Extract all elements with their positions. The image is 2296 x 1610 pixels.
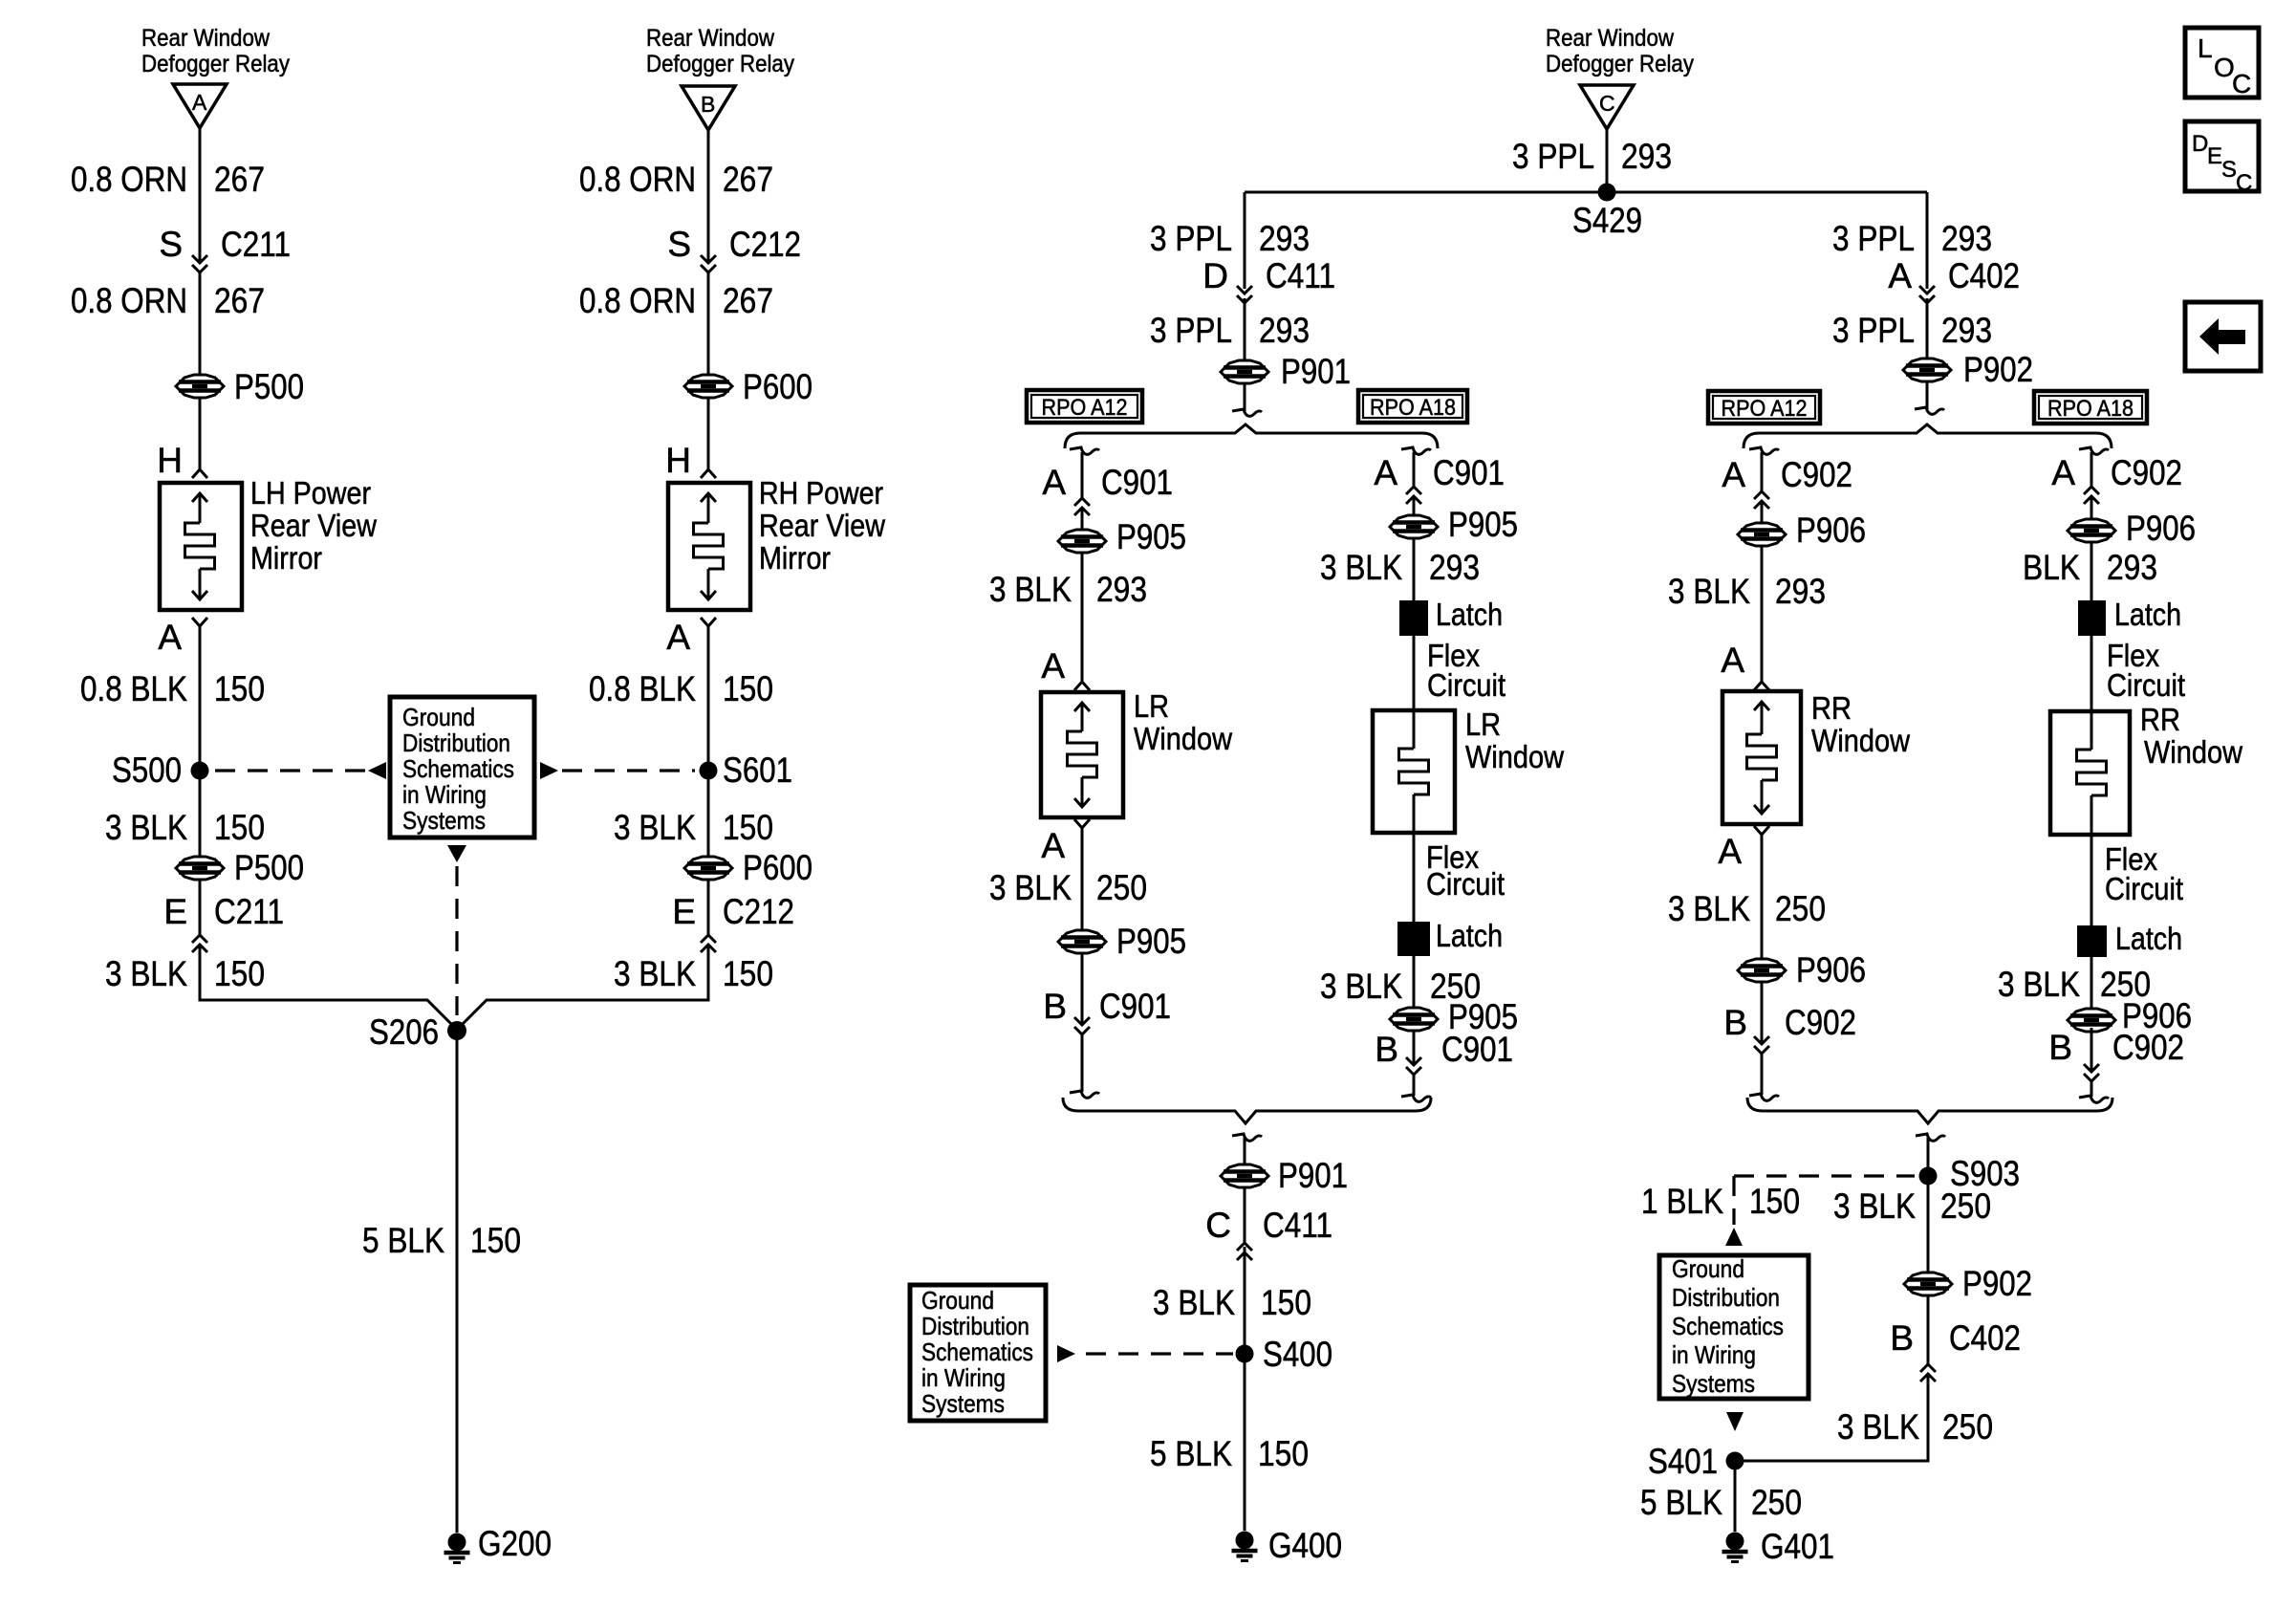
svg-text:H: H bbox=[157, 441, 183, 480]
svg-text:Ground: Ground bbox=[402, 703, 475, 731]
wire from C902 to P906 bbox=[2090, 496, 2093, 519]
value label 3 BLK 250 bbox=[1837, 1407, 1993, 1447]
back-arrow navigation icon bbox=[2185, 302, 2261, 371]
label Flex Circuit (lower) bbox=[2105, 841, 2183, 906]
splice S206 bbox=[369, 1012, 466, 1052]
svg-text:C: C bbox=[1205, 1206, 1231, 1245]
option callout RPO A12 (right) bbox=[1708, 391, 1820, 424]
svg-text:P901: P901 bbox=[1278, 1156, 1348, 1195]
svg-text:A: A bbox=[1721, 641, 1744, 680]
wire from C902 to harness brace bbox=[2079, 1081, 2109, 1102]
svg-text:C901: C901 bbox=[1101, 463, 1173, 502]
latch terminal (A18 RR lower) bbox=[2077, 921, 2182, 957]
svg-text:L: L bbox=[2198, 33, 2213, 63]
svg-text:C902: C902 bbox=[2111, 453, 2182, 492]
svg-text:C902: C902 bbox=[1781, 455, 1852, 494]
svg-text:Defogger Relay: Defogger Relay bbox=[1546, 51, 1694, 77]
svg-text:250: 250 bbox=[1096, 868, 1147, 907]
svg-text:150: 150 bbox=[723, 669, 773, 708]
wire 3 PPL 293 from C411 to P901 bbox=[1244, 298, 1246, 360]
ground G400 bbox=[1232, 1526, 1343, 1565]
dashed reference from S500 to ground note box bbox=[215, 762, 386, 779]
svg-text:P906: P906 bbox=[1796, 950, 1866, 990]
svg-text:3 BLK: 3 BLK bbox=[105, 954, 187, 993]
svg-text:Rear View: Rear View bbox=[250, 508, 377, 543]
svg-text:P600: P600 bbox=[743, 848, 812, 887]
grommet P901 bbox=[1221, 352, 1351, 391]
value label 3 BLK 250 bbox=[989, 868, 1147, 907]
value label 0.8 ORN 267 bbox=[579, 160, 773, 199]
connector C402 pin A bbox=[1888, 256, 2020, 303]
splice S429 bbox=[1572, 184, 1642, 241]
svg-text:S: S bbox=[159, 225, 183, 264]
value label 3 BLK 150 bbox=[1153, 1283, 1311, 1322]
harness option brace (left, lower) bbox=[1063, 1098, 1431, 1123]
dashed reference arrow from ground note box to S401 bbox=[1726, 1412, 1744, 1431]
svg-text:250: 250 bbox=[1940, 1186, 1991, 1226]
grommet P906 (A12 RR lower) bbox=[1738, 950, 1866, 990]
note box: Ground Distribution Schematics in Wiring Systems (middle) bbox=[910, 1285, 1046, 1421]
svg-text:Latch: Latch bbox=[1436, 597, 1503, 632]
svg-text:3 BLK: 3 BLK bbox=[1320, 548, 1402, 587]
wire from C902 to harness brace bbox=[1749, 1054, 1779, 1100]
svg-text:C211: C211 bbox=[214, 892, 284, 931]
svg-text:0.8 BLK: 0.8 BLK bbox=[589, 669, 696, 708]
svg-text:5 BLK: 5 BLK bbox=[1150, 1434, 1232, 1473]
pin A of RR window (bottom) bbox=[1718, 826, 1769, 871]
svg-text:150: 150 bbox=[723, 808, 773, 847]
svg-text:C: C bbox=[2232, 69, 2251, 98]
svg-text:0.8 ORN: 0.8 ORN bbox=[71, 281, 187, 320]
svg-text:3 BLK: 3 BLK bbox=[614, 954, 696, 993]
svg-text:Window: Window bbox=[1134, 721, 1232, 756]
svg-text:D: D bbox=[1202, 256, 1228, 295]
value label 3 BLK 250 bbox=[1320, 967, 1481, 1006]
svg-text:BLK: BLK bbox=[2023, 548, 2080, 587]
connector C902 pin B bbox=[1723, 982, 1856, 1054]
svg-text:G401: G401 bbox=[1761, 1527, 1834, 1566]
RH Power Rear View Mirror defogger element U2 bbox=[668, 483, 750, 610]
wire 0.8 ORN 267 from triangle A to C211 bbox=[199, 128, 202, 263]
svg-text:Defogger Relay: Defogger Relay bbox=[141, 51, 290, 77]
value label 3 BLK 293 bbox=[989, 570, 1147, 609]
svg-text:3 BLK: 3 BLK bbox=[1153, 1283, 1235, 1322]
wire 3 BLK 250 from latch to P906 bbox=[2090, 957, 2093, 1009]
svg-text:A: A bbox=[1041, 646, 1065, 685]
pin H of LH mirror bbox=[157, 441, 207, 480]
option callout RPO A18 (right) bbox=[2034, 391, 2147, 424]
grommet P600 bbox=[684, 367, 812, 406]
option callout RPO A18 (left) bbox=[1358, 390, 1467, 423]
svg-text:293: 293 bbox=[1775, 572, 1826, 611]
svg-text:G200: G200 bbox=[478, 1524, 552, 1563]
wire stub below P902 with harness break bbox=[1915, 381, 1944, 414]
wire 0.8 ORN 267 from C212 to P600 bbox=[707, 272, 710, 375]
svg-text:Latch: Latch bbox=[2114, 597, 2181, 632]
harness option brace (right) bbox=[1744, 424, 2112, 448]
label Flex Circuit (lower) bbox=[1426, 839, 1505, 902]
value label 3 PPL 293 bbox=[1150, 311, 1310, 350]
svg-text:Defogger Relay: Defogger Relay bbox=[646, 51, 794, 77]
svg-text:P906: P906 bbox=[2126, 509, 2196, 548]
wire 3 BLK 250 from RR window to P906 bbox=[1761, 835, 1764, 959]
grommet P902 bbox=[1903, 350, 2033, 389]
splice S401 bbox=[1648, 1442, 1744, 1481]
svg-text:A: A bbox=[1722, 455, 1745, 494]
svg-text:E: E bbox=[163, 892, 187, 931]
wire 5 BLK 150 from S400 to G400 bbox=[1244, 1354, 1246, 1531]
svg-text:H: H bbox=[665, 441, 691, 480]
wire to LH mirror pin H bbox=[199, 398, 202, 469]
value label 0.8 ORN 267 bbox=[579, 281, 773, 320]
svg-text:Mirror: Mirror bbox=[759, 540, 831, 576]
svg-text:293: 293 bbox=[1941, 219, 1992, 258]
svg-text:RPO A12: RPO A12 bbox=[1722, 396, 1808, 422]
connector C902 pin B (A18) bbox=[2048, 1028, 2184, 1081]
svg-text:C902: C902 bbox=[2112, 1028, 2184, 1067]
LH Power Rear View Mirror defogger element U1 bbox=[160, 483, 242, 610]
svg-text:B: B bbox=[2048, 1028, 2072, 1067]
RR Window defogger element (RPO A18) bbox=[2050, 711, 2130, 835]
value label 3 PPL 293 bbox=[1150, 219, 1310, 258]
svg-text:250: 250 bbox=[1775, 889, 1826, 928]
svg-text:3 PPL: 3 PPL bbox=[1150, 311, 1232, 350]
svg-text:267: 267 bbox=[214, 160, 265, 199]
svg-text:3 BLK: 3 BLK bbox=[989, 570, 1072, 609]
svg-text:in Wiring: in Wiring bbox=[402, 780, 487, 809]
label RR Window (RPO A18) bbox=[2140, 702, 2242, 770]
svg-text:Distribution: Distribution bbox=[921, 1312, 1029, 1340]
svg-text:293: 293 bbox=[1259, 311, 1310, 350]
wire 3 BLK 250 from latch to P905 bbox=[1413, 956, 1416, 1008]
svg-text:LR: LR bbox=[1134, 688, 1169, 724]
svg-text:Distribution: Distribution bbox=[402, 729, 510, 757]
svg-text:3 PPL: 3 PPL bbox=[1150, 219, 1232, 258]
svg-text:Circuit: Circuit bbox=[1427, 667, 1505, 703]
svg-text:S: S bbox=[667, 225, 691, 264]
svg-text:Latch: Latch bbox=[2115, 921, 2182, 956]
power feed label (Rear Window Defogger Relay, LH) bbox=[141, 25, 290, 77]
svg-text:S601: S601 bbox=[723, 751, 792, 790]
grommet P600 (lower) bbox=[684, 848, 812, 887]
svg-text:P902: P902 bbox=[1963, 350, 2033, 389]
value label 5 BLK 150 bbox=[362, 1221, 521, 1260]
grommet P905 (A18 LR lower) bbox=[1390, 997, 1518, 1036]
svg-text:C212: C212 bbox=[729, 225, 801, 264]
svg-text:A: A bbox=[1888, 256, 1912, 295]
grommet P901 (return) bbox=[1221, 1156, 1348, 1195]
value label 0.8 ORN 267 bbox=[71, 160, 265, 199]
connector C212 pin E bbox=[672, 880, 794, 952]
connector C901 pin A bbox=[1374, 453, 1505, 504]
svg-text:P905: P905 bbox=[1448, 505, 1518, 544]
dashed reference from ground note box to S400 bbox=[1057, 1345, 1233, 1362]
wire 5 BLK 150 from S206 to G200 bbox=[456, 1031, 459, 1533]
svg-text:3 BLK: 3 BLK bbox=[105, 808, 187, 847]
label LR Window (RPO A12) bbox=[1134, 688, 1232, 756]
connector C901 pin A bbox=[1042, 463, 1173, 515]
harness option brace (left) bbox=[1065, 424, 1438, 448]
svg-text:S401: S401 bbox=[1648, 1442, 1718, 1481]
svg-text:Circuit: Circuit bbox=[1426, 866, 1505, 902]
splice S903 bbox=[1919, 1154, 2021, 1193]
wire 3 PPL 293 from triangle C to S429 bbox=[1606, 129, 1609, 192]
svg-text:C211: C211 bbox=[221, 225, 291, 264]
svg-text:Circuit: Circuit bbox=[2107, 667, 2185, 703]
svg-text:Window: Window bbox=[1811, 723, 1910, 758]
wire 5 BLK 250 from S401 to G401 bbox=[1734, 1461, 1737, 1532]
wire 0.8 ORN 267 from triangle B to C212 bbox=[707, 130, 710, 263]
svg-text:Ground: Ground bbox=[921, 1286, 994, 1315]
value label 3 PPL 293 bbox=[1832, 219, 1992, 258]
dashed reference from ground note box down to S206 bbox=[447, 845, 466, 1015]
svg-text:150: 150 bbox=[1749, 1182, 1800, 1221]
svg-text:0.8 ORN: 0.8 ORN bbox=[579, 281, 696, 320]
svg-text:293: 293 bbox=[2107, 548, 2157, 587]
value label 3 PPL 293 bbox=[1512, 137, 1672, 176]
svg-text:B: B bbox=[1890, 1318, 1914, 1358]
svg-text:P905: P905 bbox=[1116, 922, 1186, 961]
svg-text:Circuit: Circuit bbox=[2105, 871, 2183, 906]
wire 3 PPL 293 from C402 to P902 bbox=[1926, 298, 1929, 359]
value label 5 BLK 150 bbox=[1150, 1434, 1309, 1473]
power feed label (Rear Window Defogger Relay, C) bbox=[1546, 25, 1694, 77]
svg-text:C402: C402 bbox=[1948, 256, 2020, 295]
svg-text:RH Power: RH Power bbox=[759, 475, 883, 511]
connector C902 pin A bbox=[2051, 453, 2182, 504]
harness option brace (right, lower) bbox=[1747, 1098, 2112, 1123]
svg-text:150: 150 bbox=[1258, 1434, 1309, 1473]
svg-text:250: 250 bbox=[1942, 1407, 1993, 1447]
svg-text:P905: P905 bbox=[1116, 517, 1186, 556]
power feed label (Rear Window Defogger Relay, RH) bbox=[646, 25, 794, 77]
splice S601 bbox=[700, 751, 793, 790]
connector C211 pin S bbox=[159, 225, 291, 272]
latch terminal (A18 LR lower) bbox=[1397, 918, 1503, 956]
LR Window defogger element (RPO A12) bbox=[1041, 692, 1123, 817]
svg-text:3 BLK: 3 BLK bbox=[1320, 967, 1402, 1006]
connector C211 pin E bbox=[163, 880, 284, 952]
svg-text:Schematics: Schematics bbox=[921, 1338, 1033, 1366]
note box: Ground Distribution Schematics in Wiring Systems (left) bbox=[390, 697, 534, 838]
svg-text:Schematics: Schematics bbox=[402, 754, 514, 783]
value label 3 BLK 293 bbox=[1668, 572, 1826, 611]
grommet P906 (A12 RR upper) bbox=[1738, 511, 1866, 550]
svg-text:3 BLK: 3 BLK bbox=[1833, 1186, 1916, 1226]
svg-text:267: 267 bbox=[723, 281, 773, 320]
label Flex Circuit (upper) bbox=[1427, 638, 1505, 703]
grommet P905 (A12 LR lower) bbox=[1058, 922, 1186, 961]
value label 3 BLK 150 bbox=[105, 808, 265, 847]
svg-text:A: A bbox=[1041, 826, 1065, 865]
latch terminal (A18 LR upper) bbox=[1399, 597, 1503, 636]
value label 3 BLK 250 bbox=[1668, 889, 1826, 928]
connector C402 pin B bbox=[1890, 1295, 2021, 1382]
value label 0.8 BLK 150 bbox=[589, 669, 773, 708]
value label 3 BLK 293 bbox=[1320, 548, 1480, 587]
wire from C902 to P906 bbox=[1761, 501, 1764, 523]
svg-text:0.8 ORN: 0.8 ORN bbox=[579, 160, 696, 199]
grommet P500 (lower) bbox=[176, 848, 304, 887]
svg-text:Systems: Systems bbox=[921, 1389, 1005, 1418]
wire 0.8 ORN 267 from C211 to P500 bbox=[199, 272, 202, 375]
svg-text:Ground: Ground bbox=[1672, 1254, 1744, 1283]
relay output triangle C bbox=[1580, 85, 1634, 129]
svg-text:150: 150 bbox=[214, 669, 265, 708]
svg-text:293: 293 bbox=[1259, 219, 1310, 258]
splice S500 bbox=[112, 751, 209, 790]
svg-text:267: 267 bbox=[723, 160, 773, 199]
svg-text:B: B bbox=[1375, 1030, 1398, 1069]
svg-text:5 BLK: 5 BLK bbox=[362, 1221, 444, 1260]
grommet P905 (A12 LR upper) bbox=[1058, 517, 1186, 556]
svg-text:S500: S500 bbox=[112, 751, 182, 790]
value label 0.8 BLK 150 bbox=[80, 669, 265, 708]
svg-text:150: 150 bbox=[1261, 1283, 1311, 1322]
svg-text:250: 250 bbox=[1751, 1483, 1802, 1522]
svg-text:P901: P901 bbox=[1281, 352, 1351, 391]
svg-text:3 BLK: 3 BLK bbox=[1837, 1407, 1919, 1447]
value label 3 BLK 150 bbox=[105, 954, 265, 993]
svg-text:293: 293 bbox=[1621, 137, 1672, 176]
grommet P906 (A18 RR lower) bbox=[2068, 996, 2192, 1035]
svg-text:150: 150 bbox=[214, 954, 265, 993]
svg-text:Rear Window: Rear Window bbox=[141, 25, 271, 52]
wire 3 BLK 150 from S601 to P600 bbox=[707, 771, 710, 857]
connector C902 pin A bbox=[1722, 455, 1852, 509]
svg-text:C901: C901 bbox=[1099, 987, 1171, 1026]
svg-text:3 BLK: 3 BLK bbox=[614, 808, 696, 847]
wire break below brace bbox=[1232, 1134, 1262, 1164]
label RH Power Rear View Mirror bbox=[759, 475, 885, 576]
svg-text:0.8 ORN: 0.8 ORN bbox=[71, 160, 187, 199]
label LH Power Rear View Mirror bbox=[250, 475, 377, 576]
flex circuit conductor to LR window bbox=[1413, 636, 1416, 710]
svg-text:P906: P906 bbox=[1796, 511, 1866, 550]
branch break at top of C902 branch bbox=[1749, 447, 1779, 491]
RR Window defogger element (RPO A12) bbox=[1722, 691, 1801, 824]
svg-text:C902: C902 bbox=[1785, 1003, 1856, 1042]
wire from C901 to P905 bbox=[1413, 496, 1416, 515]
branch break at top of C901 branch bbox=[1070, 447, 1099, 498]
svg-text:RPO A18: RPO A18 bbox=[1370, 395, 1456, 421]
wire 3 BLK 150 from S500 to P500 bbox=[199, 771, 202, 857]
wire 3 BLK 250 from LR window to P905 bbox=[1081, 828, 1084, 930]
DESC reference icon bbox=[2185, 121, 2259, 196]
svg-text:Rear Window: Rear Window bbox=[646, 25, 775, 52]
svg-text:in Wiring: in Wiring bbox=[1672, 1340, 1756, 1369]
svg-text:A: A bbox=[1042, 463, 1066, 502]
wire 3 BLK 293 from P906 to RR window bbox=[1761, 546, 1764, 682]
svg-text:G400: G400 bbox=[1268, 1526, 1342, 1565]
svg-text:Systems: Systems bbox=[402, 806, 486, 835]
svg-text:RPO A12: RPO A12 bbox=[1042, 395, 1128, 421]
svg-text:B: B bbox=[701, 92, 715, 117]
svg-text:Distribution: Distribution bbox=[1672, 1283, 1780, 1312]
flex circuit conductor from LR window bbox=[1413, 833, 1416, 922]
svg-text:C901: C901 bbox=[1433, 453, 1505, 492]
connector C901 pin B bbox=[1043, 953, 1171, 1034]
svg-text:3 PPL: 3 PPL bbox=[1512, 137, 1594, 176]
svg-text:RPO A18: RPO A18 bbox=[2047, 396, 2134, 422]
svg-text:A: A bbox=[666, 618, 690, 657]
value label 0.8 ORN 267 bbox=[71, 281, 265, 320]
svg-text:B: B bbox=[1043, 987, 1067, 1026]
svg-text:3 BLK: 3 BLK bbox=[1668, 572, 1750, 611]
relay output triangle B bbox=[682, 86, 735, 130]
latch terminal (A18 RR upper) bbox=[2078, 597, 2181, 636]
pin A of LH mirror bbox=[158, 618, 207, 657]
svg-text:LR: LR bbox=[1465, 707, 1501, 742]
svg-text:267: 267 bbox=[214, 281, 265, 320]
value label 1 BLK 150 (dashed wire) bbox=[1641, 1182, 1800, 1221]
svg-text:A: A bbox=[158, 618, 182, 657]
svg-text:S206: S206 bbox=[369, 1012, 439, 1052]
svg-text:Window: Window bbox=[1465, 739, 1564, 774]
connector C411 pin D bbox=[1202, 256, 1335, 303]
wire 3 BLK 150 from C211 to S206 bbox=[200, 945, 457, 1030]
svg-text:150: 150 bbox=[470, 1221, 521, 1260]
svg-text:293: 293 bbox=[1429, 548, 1480, 587]
pin A of RH mirror bbox=[666, 618, 716, 657]
svg-text:RR: RR bbox=[2140, 702, 2180, 737]
svg-text:E: E bbox=[2207, 143, 2222, 169]
wire 3 BLK 150 from C212 to S206 bbox=[457, 945, 708, 1030]
wire 3 BLK 293 from P905 to latch bbox=[1413, 538, 1416, 600]
svg-text:C901: C901 bbox=[1441, 1030, 1513, 1069]
label RR Window (RPO A12) bbox=[1811, 690, 1910, 758]
svg-text:A: A bbox=[2051, 453, 2075, 492]
wire 3 PPL 293 down to C411 bbox=[1244, 192, 1246, 289]
relay output triangle A bbox=[173, 84, 227, 128]
svg-text:P500: P500 bbox=[234, 367, 304, 406]
label LR Window (RPO A18) bbox=[1465, 707, 1564, 774]
option callout RPO A12 (left) bbox=[1027, 390, 1142, 423]
svg-text:S: S bbox=[2221, 157, 2237, 183]
svg-text:C: C bbox=[2236, 170, 2252, 196]
pin A of RR window (top) bbox=[1721, 641, 1769, 690]
svg-text:5 BLK: 5 BLK bbox=[1640, 1483, 1722, 1522]
wire to RH mirror pin H bbox=[707, 398, 710, 469]
pin H of RH mirror bbox=[665, 441, 716, 480]
svg-text:S400: S400 bbox=[1263, 1335, 1332, 1374]
connector C212 pin S bbox=[667, 225, 801, 272]
grommet P906 (A18 RR upper) bbox=[2068, 509, 2196, 548]
svg-text:Systems: Systems bbox=[1672, 1369, 1755, 1398]
wire 0.8 BLK 150 from mirror pin A to S601 bbox=[707, 626, 710, 771]
bus wire from S429 left and right bbox=[1245, 191, 1927, 194]
svg-text:A: A bbox=[1374, 453, 1397, 492]
svg-text:Rear View: Rear View bbox=[759, 508, 885, 543]
value label 3 BLK 250 bbox=[1833, 1186, 1991, 1226]
wire from C901 to harness brace bbox=[1401, 1075, 1431, 1101]
wire 3 BLK 150 from C411 to S400 bbox=[1244, 1247, 1246, 1354]
wire 0.8 BLK 150 from mirror pin A to S500 bbox=[199, 626, 202, 771]
svg-text:S429: S429 bbox=[1572, 201, 1642, 240]
flex circuit conductor from RR window bbox=[2090, 835, 2093, 925]
svg-text:in Wiring: in Wiring bbox=[921, 1363, 1006, 1392]
value label 5 BLK 250 bbox=[1640, 1483, 1802, 1522]
wire 3 BLK 293 from P905 to LR window bbox=[1081, 553, 1084, 682]
branch break at top of C901 branch bbox=[1401, 447, 1431, 487]
pin A of LR window (bottom) bbox=[1041, 819, 1090, 865]
svg-text:3 BLK: 3 BLK bbox=[1998, 965, 2080, 1004]
svg-text:3 BLK: 3 BLK bbox=[1668, 889, 1750, 928]
note box: Ground Distribution Schematics in Wiring Systems (right) bbox=[1659, 1254, 1809, 1399]
svg-text:C402: C402 bbox=[1949, 1318, 2021, 1358]
svg-text:3 BLK: 3 BLK bbox=[989, 868, 1072, 907]
wire BLK 293 from P906 to latch bbox=[2090, 542, 2093, 600]
